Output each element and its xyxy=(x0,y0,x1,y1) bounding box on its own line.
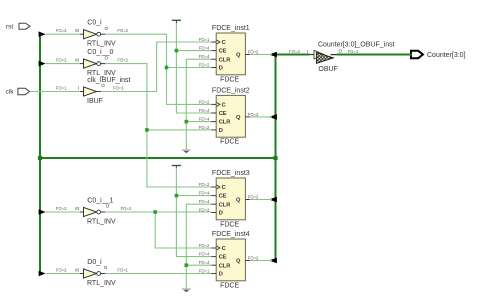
ground const0 (bottom) xyxy=(182,289,191,292)
bus tap arrow to C0_i__0 input xyxy=(39,61,46,67)
bus left trunk Counter[3:0] xyxy=(39,33,41,275)
svg-text:FDCE_inst3: FDCE_inst3 xyxy=(212,170,250,177)
svg-text:CLR: CLR xyxy=(219,57,231,63)
svg-text:C: C xyxy=(222,185,226,191)
wire clk_IBUF to FDCE_inst1 C xyxy=(101,42,211,92)
svg-text:FO=2: FO=2 xyxy=(56,206,67,211)
svg-text:I0: I0 xyxy=(75,206,79,211)
svg-text:FO=1: FO=1 xyxy=(348,49,359,54)
wire bus tap to C0_i input xyxy=(45,33,80,35)
svg-text:FO=2: FO=2 xyxy=(199,125,210,130)
net C0_i__0 output to FDCE_inst2 D and FDCE_inst3 C xyxy=(105,64,211,187)
wire FDCE_inst2 Q to bus xyxy=(250,116,272,118)
power const1 (top) xyxy=(172,20,181,23)
wire bus tap to D0_i input xyxy=(45,273,80,275)
svg-text:CE: CE xyxy=(219,49,227,55)
svg-text:D: D xyxy=(219,211,223,217)
svg-text:FDCE: FDCE xyxy=(220,139,239,146)
svg-text:FO=1: FO=1 xyxy=(56,86,67,91)
svg-text:FO=2: FO=2 xyxy=(248,50,259,55)
svg-text:FO=2: FO=2 xyxy=(56,58,67,63)
svg-text:CE: CE xyxy=(219,194,227,200)
svg-text:FO=4: FO=4 xyxy=(199,252,210,257)
svg-text:I0: I0 xyxy=(75,267,79,272)
svg-text:O: O xyxy=(104,265,108,270)
svg-text:FDCE: FDCE xyxy=(220,76,239,83)
bus tap arrow from FDCE_inst3 Q xyxy=(269,197,277,203)
svg-text:FO=2: FO=2 xyxy=(117,58,128,63)
svg-text:FDCE_inst2: FDCE_inst2 xyxy=(212,87,250,94)
svg-text:FO=2: FO=2 xyxy=(199,243,210,248)
svg-text:CE: CE xyxy=(219,255,227,261)
svg-text:D: D xyxy=(219,272,223,278)
svg-text:C0_i__0: C0_i__0 xyxy=(87,49,113,56)
svg-text:C: C xyxy=(222,103,226,109)
bus wire to OBUF input xyxy=(275,54,310,56)
inverter C0_i (RTL_INV) xyxy=(56,20,129,48)
svg-text:Q: Q xyxy=(236,259,241,265)
svg-text:FO=1: FO=1 xyxy=(113,86,124,91)
svg-text:FO=2: FO=2 xyxy=(248,256,259,261)
svg-text:O: O xyxy=(104,26,108,31)
ground const0 (top) xyxy=(182,150,191,153)
bus wire OBUF output to port xyxy=(337,54,412,56)
svg-text:O: O xyxy=(106,204,110,209)
buffer Counter[3:0]_OBUF_inst (OBUF) xyxy=(289,42,394,73)
svg-text:C: C xyxy=(222,246,226,252)
svg-text:FO=1: FO=1 xyxy=(199,37,210,42)
svg-text:FO=4: FO=4 xyxy=(199,191,210,196)
svg-text:RTL_INV: RTL_INV xyxy=(87,280,116,287)
bus tap arrow from FDCE_inst1 Q xyxy=(269,52,277,58)
svg-text:D: D xyxy=(219,66,223,72)
wire FDCE_inst3 Q to bus xyxy=(250,199,272,201)
svg-text:FO=2: FO=2 xyxy=(289,49,300,54)
output port Counter[3:0] xyxy=(411,51,466,59)
svg-text:rst: rst xyxy=(6,24,13,31)
svg-text:CLR: CLR xyxy=(219,120,231,126)
svg-text:I: I xyxy=(78,85,79,90)
svg-text:C0_i__1: C0_i__1 xyxy=(87,198,113,205)
flip-flop FDCE_inst2 xyxy=(199,87,259,145)
bus tap arrow to D0_i input xyxy=(39,271,46,277)
bus tap arrow from FDCE_inst4 Q xyxy=(269,258,277,264)
svg-text:FO=4: FO=4 xyxy=(199,199,210,204)
net const0 bottom to FDCE_inst3 CLR and FDCE_inst4 CLR xyxy=(185,204,212,289)
flip-flop FDCE_inst1 xyxy=(199,25,259,83)
svg-text:OBUF: OBUF xyxy=(318,66,337,73)
svg-text:Q: Q xyxy=(236,115,241,121)
net const1 bottom to FDCE_inst3 CE and FDCE_inst4 CE xyxy=(175,168,212,257)
input port rst (unconnected) xyxy=(6,23,30,30)
svg-text:I: I xyxy=(307,49,308,54)
svg-text:FO=2: FO=2 xyxy=(56,28,67,33)
flip-flop FDCE_inst3 xyxy=(199,170,259,228)
svg-text:FO=2: FO=2 xyxy=(199,99,210,104)
svg-text:FDCE_inst1: FDCE_inst1 xyxy=(212,25,250,32)
inverter C0_i__1 (RTL_INV) xyxy=(56,198,132,226)
svg-text:FO=2: FO=2 xyxy=(248,195,259,200)
flip-flop FDCE_inst4 xyxy=(199,231,259,289)
bus junction left xyxy=(38,156,42,160)
wire bus tap to C0_i__0 input xyxy=(45,63,80,65)
svg-text:FO=2: FO=2 xyxy=(199,182,210,187)
svg-text:clk_IBUF_inst: clk_IBUF_inst xyxy=(87,77,130,84)
svg-text:RTL_INV: RTL_INV xyxy=(87,218,116,225)
wire FDCE_inst1 Q to bus xyxy=(250,54,272,56)
bus tap arrow from FDCE_inst2 Q xyxy=(269,114,277,120)
net const0 to FDCE_inst1 CLR and FDCE_inst2 CLR xyxy=(185,59,212,149)
svg-text:RTL_INV: RTL_INV xyxy=(87,41,116,48)
net C0_i__1 output to FDCE_inst3 D and FDCE_inst4 C xyxy=(105,210,211,248)
input port clk xyxy=(6,88,30,95)
net const1 to FDCE_inst1 CE and FDCE_inst2 CE xyxy=(175,23,212,113)
svg-text:CLR: CLR xyxy=(219,263,231,269)
svg-text:C0_i: C0_i xyxy=(87,20,102,27)
svg-text:FO=4: FO=4 xyxy=(199,54,210,59)
svg-text:O: O xyxy=(104,55,108,60)
svg-text:FO=2: FO=2 xyxy=(121,206,132,211)
bus horizontal Counter[3:0] xyxy=(39,157,277,159)
svg-text:FO=4: FO=4 xyxy=(199,108,210,113)
wire bus tap to C0_i__1 input xyxy=(45,211,80,213)
wire D0_i output to FDCE_inst4 D xyxy=(105,273,211,275)
svg-text:D0_i: D0_i xyxy=(87,259,102,266)
bus right trunk Counter[3:0] xyxy=(275,54,277,262)
bus junction right xyxy=(273,156,277,160)
svg-text:D: D xyxy=(219,128,223,134)
svg-text:Counter[3:0]_OBUF_inst: Counter[3:0]_OBUF_inst xyxy=(318,42,395,49)
svg-text:FDCE: FDCE xyxy=(220,221,239,228)
svg-text:I0: I0 xyxy=(75,57,79,62)
svg-text:FO=2: FO=2 xyxy=(199,63,210,68)
wire clk port to IBUF xyxy=(30,91,80,93)
svg-text:FDCE_inst4: FDCE_inst4 xyxy=(212,231,250,238)
svg-text:clk: clk xyxy=(6,89,15,96)
net C0_i output to FDCE_inst1 D and FDCE_inst2 C xyxy=(105,34,211,104)
svg-text:FDCE: FDCE xyxy=(220,282,239,289)
svg-text:I0: I0 xyxy=(75,28,79,33)
svg-text:FO=1: FO=1 xyxy=(117,268,128,273)
svg-text:RTL_INV: RTL_INV xyxy=(87,70,116,77)
svg-text:FO=4: FO=4 xyxy=(199,117,210,122)
inverter C0_i__0 (RTL_INV) xyxy=(56,49,129,77)
svg-text:O: O xyxy=(339,48,343,53)
buffer clk_IBUF_inst (IBUF) xyxy=(56,77,131,105)
bus tap arrow to C0_i__1 input xyxy=(39,209,46,215)
svg-text:C: C xyxy=(222,40,226,46)
wire FDCE_inst4 Q to bus xyxy=(250,260,272,262)
svg-text:IBUF: IBUF xyxy=(87,98,103,105)
svg-text:O: O xyxy=(101,83,105,88)
inverter D0_i (RTL_INV) xyxy=(56,259,129,287)
svg-text:Q: Q xyxy=(236,198,241,204)
svg-text:FO=4: FO=4 xyxy=(199,260,210,265)
svg-text:CLR: CLR xyxy=(219,202,231,208)
svg-text:FO=2: FO=2 xyxy=(248,112,259,117)
svg-text:Q: Q xyxy=(236,53,241,59)
svg-text:Counter[3:0]: Counter[3:0] xyxy=(427,52,466,59)
svg-text:FO=1: FO=1 xyxy=(199,269,210,274)
bus tap arrow to C0_i input xyxy=(39,31,46,37)
svg-text:FO=2: FO=2 xyxy=(117,28,128,33)
svg-text:CE: CE xyxy=(219,111,227,117)
svg-text:FO=2: FO=2 xyxy=(56,268,67,273)
power const1 (bottom) xyxy=(172,166,181,168)
svg-text:FO=4: FO=4 xyxy=(199,46,210,51)
